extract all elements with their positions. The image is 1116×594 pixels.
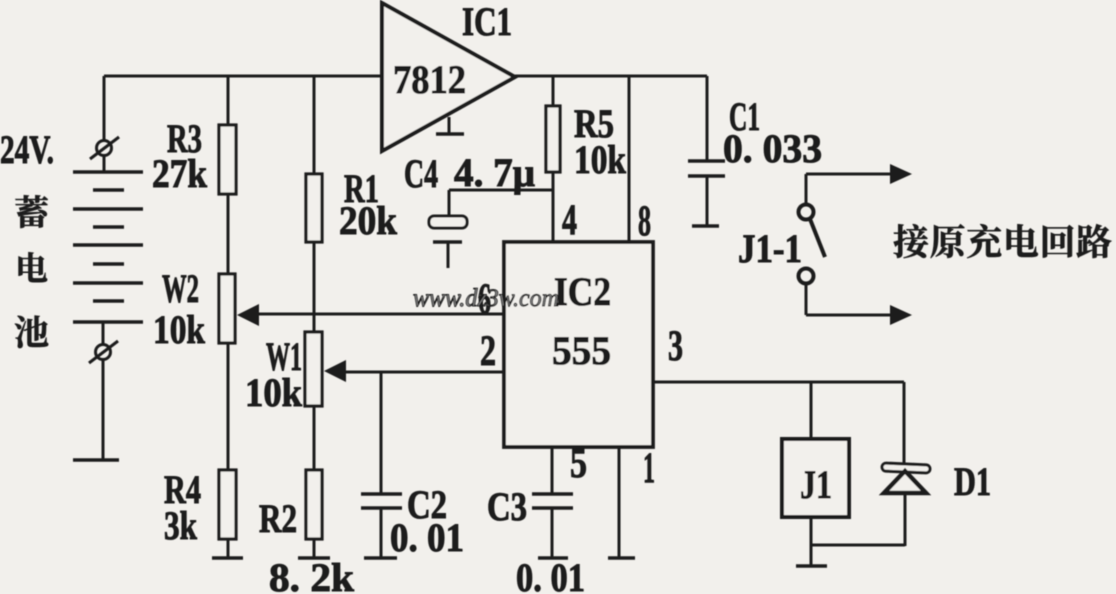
svg-text:D1: D1 xyxy=(954,459,991,504)
svg-text:4: 4 xyxy=(562,197,577,244)
svg-text:3: 3 xyxy=(668,323,683,370)
svg-text:J1-1: J1-1 xyxy=(738,226,802,271)
svg-text:0. 01: 0. 01 xyxy=(516,555,585,594)
svg-text:www.dz3w.com: www.dz3w.com xyxy=(413,285,559,312)
svg-text:0. 01: 0. 01 xyxy=(390,515,464,560)
svg-text:C3: C3 xyxy=(487,484,527,529)
svg-text:J1: J1 xyxy=(800,462,832,507)
svg-text:24V.: 24V. xyxy=(0,127,54,172)
svg-text:1: 1 xyxy=(643,445,655,492)
svg-text:10k: 10k xyxy=(153,307,206,352)
svg-text:5: 5 xyxy=(570,440,587,487)
svg-text:IC1: IC1 xyxy=(462,0,512,44)
svg-text:4. 7μ: 4. 7μ xyxy=(454,150,535,195)
svg-text:27k: 27k xyxy=(152,151,208,196)
svg-text:20k: 20k xyxy=(339,198,398,243)
svg-text:R2: R2 xyxy=(259,496,297,541)
svg-text:7812: 7812 xyxy=(393,57,466,102)
svg-text:C4: C4 xyxy=(404,151,438,196)
svg-text:10k: 10k xyxy=(245,370,303,415)
svg-text:10k: 10k xyxy=(574,137,627,182)
svg-text:IC2: IC2 xyxy=(554,269,611,314)
svg-text:2: 2 xyxy=(480,328,496,375)
svg-text:3k: 3k xyxy=(164,503,198,548)
svg-text:W2: W2 xyxy=(162,266,199,311)
svg-text:0. 033: 0. 033 xyxy=(723,126,822,171)
svg-text:555: 555 xyxy=(552,328,611,373)
svg-text:8. 2k: 8. 2k xyxy=(269,555,355,594)
svg-text:8: 8 xyxy=(638,198,651,245)
